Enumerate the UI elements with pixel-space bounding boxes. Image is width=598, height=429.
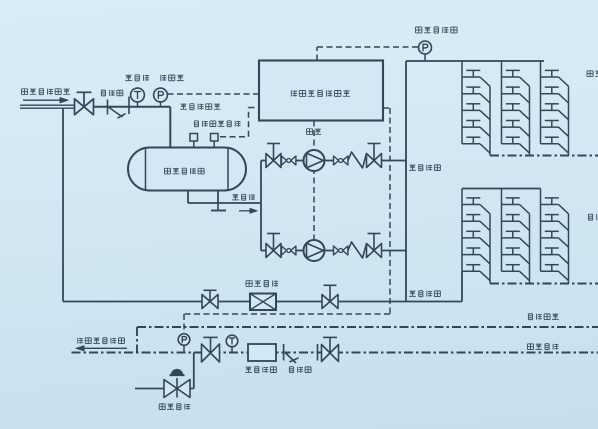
- label thermometer 温度表: [125, 75, 149, 81]
- flow arrow municipal return: [76, 346, 127, 351]
- wire cabinet to pumps dashed: [313, 121, 315, 241]
- wire high zone return dash-dot: [490, 155, 598, 157]
- gauge P3 on return: [178, 334, 190, 353]
- control cabinet 微机变频控制柜: [259, 61, 383, 121]
- strainer F2 过滤器 on return: [284, 344, 318, 363]
- zigzag flexible connector upper: [348, 152, 367, 168]
- drain fitting below tank: [211, 203, 226, 211]
- pump U2 水泵: [304, 240, 325, 261]
- sensor P2 压力传感器: [419, 41, 432, 61]
- wire suction manifold: [260, 161, 262, 251]
- wire inlet pipe after valve: [94, 106, 171, 108]
- riser low-2 with taps: [502, 189, 530, 284]
- label cabinet 微机变频控制柜: [291, 90, 350, 96]
- relief valve 泄压装置: [164, 370, 190, 398]
- riser high-1 with taps: [462, 61, 490, 156]
- flex joint upper discharge: [325, 156, 348, 165]
- label pressure sensor 压力传感器: [416, 27, 458, 33]
- gauge T1 temperature: [131, 88, 145, 107]
- fitting vacuum breaker right: [211, 134, 219, 148]
- valve V10 return valve: [202, 337, 220, 362]
- label strainer2 过滤器: [289, 367, 311, 373]
- riser low-1 with taps: [462, 189, 490, 284]
- flex joint lower discharge: [325, 246, 348, 255]
- wire high zone header: [406, 60, 544, 62]
- wire vacuum valve dashed control: [220, 108, 259, 137]
- label low zone return 低区回水: [528, 314, 558, 320]
- wire low zone return dash-dot: [490, 283, 598, 285]
- wire upper discharge: [382, 160, 407, 162]
- wire level sensor dashed to cabinet: [168, 93, 260, 95]
- wire municipal return main dash-dot: [72, 352, 598, 354]
- flow switch 流量开关: [250, 294, 276, 311]
- label pressure gauge 压力表: [161, 75, 184, 81]
- wire: [296, 250, 304, 252]
- label vacuum suppressor 真空抑制阀器: [194, 121, 240, 127]
- wire relief branch: [135, 353, 194, 389]
- label flow switch 流量开关: [246, 281, 278, 287]
- tank 稳流平衡器 vessel: [128, 148, 246, 191]
- wire discharge riser: [405, 61, 407, 302]
- valve V1 inlet gate valve: [75, 92, 94, 115]
- valve V9 bypass valve right: [322, 285, 338, 308]
- zigzag flexible connector lower: [348, 242, 367, 258]
- label high zone 高区: [587, 71, 598, 77]
- valve V8 bypass valve left: [202, 290, 218, 308]
- valve V5 lower pump suction valve: [266, 234, 281, 258]
- wire bypass drop left: [62, 108, 64, 301]
- label tap water 自来水: [232, 194, 255, 200]
- wire low zone header: [462, 188, 541, 190]
- label low zone supply 低区供水: [409, 291, 440, 297]
- label strainer 过滤器: [101, 90, 122, 96]
- strainer F1 过滤器: [108, 97, 130, 119]
- label level sensor 液位传感器: [180, 104, 220, 110]
- label relief device 泄压装置: [159, 404, 190, 410]
- wire low zone supply riser drop: [461, 271, 463, 301]
- valve V3 upper pump discharge valve: [367, 144, 382, 168]
- valve V2 upper pump suction valve: [266, 144, 281, 168]
- wire low zone return main dash-dot: [137, 327, 598, 353]
- wire lower pump suction: [261, 250, 266, 252]
- pressure reducer 降压装置: [248, 344, 276, 361]
- wire upper pump suction: [261, 160, 266, 162]
- valve V6 lower pump discharge valve: [367, 234, 382, 258]
- wire lower discharge: [382, 250, 407, 252]
- wire cabinet right control dashed: [184, 108, 390, 334]
- riser high-3 with taps: [541, 61, 569, 156]
- riser high-2 with taps: [502, 61, 530, 156]
- label reducer 降压装置: [245, 367, 276, 373]
- flow arrow tap water: [239, 208, 257, 213]
- fitting vacuum breaker left: [190, 134, 198, 148]
- valve V11 return valve right: [322, 337, 339, 361]
- label municipal return 市政管网回水: [78, 338, 125, 344]
- pump U1 水泵: [304, 150, 325, 171]
- label pump 水泵: [306, 129, 321, 135]
- label high zone supply 高区供水: [409, 165, 440, 171]
- wire inlet pipe double line: [20, 105, 75, 108]
- wire cabinet to pressure sensor dashed: [317, 47, 420, 61]
- wire inlet drop into tank: [169, 107, 171, 148]
- gauge P1 pressure: [154, 88, 168, 107]
- label high zone return 高区回水: [527, 344, 558, 350]
- wire low zone supply horizontal: [63, 301, 462, 303]
- label tank 稳流平衡器: [164, 168, 204, 174]
- flex joint upper suction: [282, 156, 296, 165]
- riser low-3 with taps: [541, 189, 569, 284]
- flow arrow inlet: [23, 98, 68, 103]
- wire: [296, 160, 304, 162]
- label municipal supply 市政管网给水: [21, 89, 69, 95]
- flex joint lower suction: [282, 246, 296, 255]
- gauge T2 on return: [226, 335, 238, 352]
- label low zone 低区: [588, 214, 598, 220]
- wire tank bottom outlet: [188, 191, 261, 204]
